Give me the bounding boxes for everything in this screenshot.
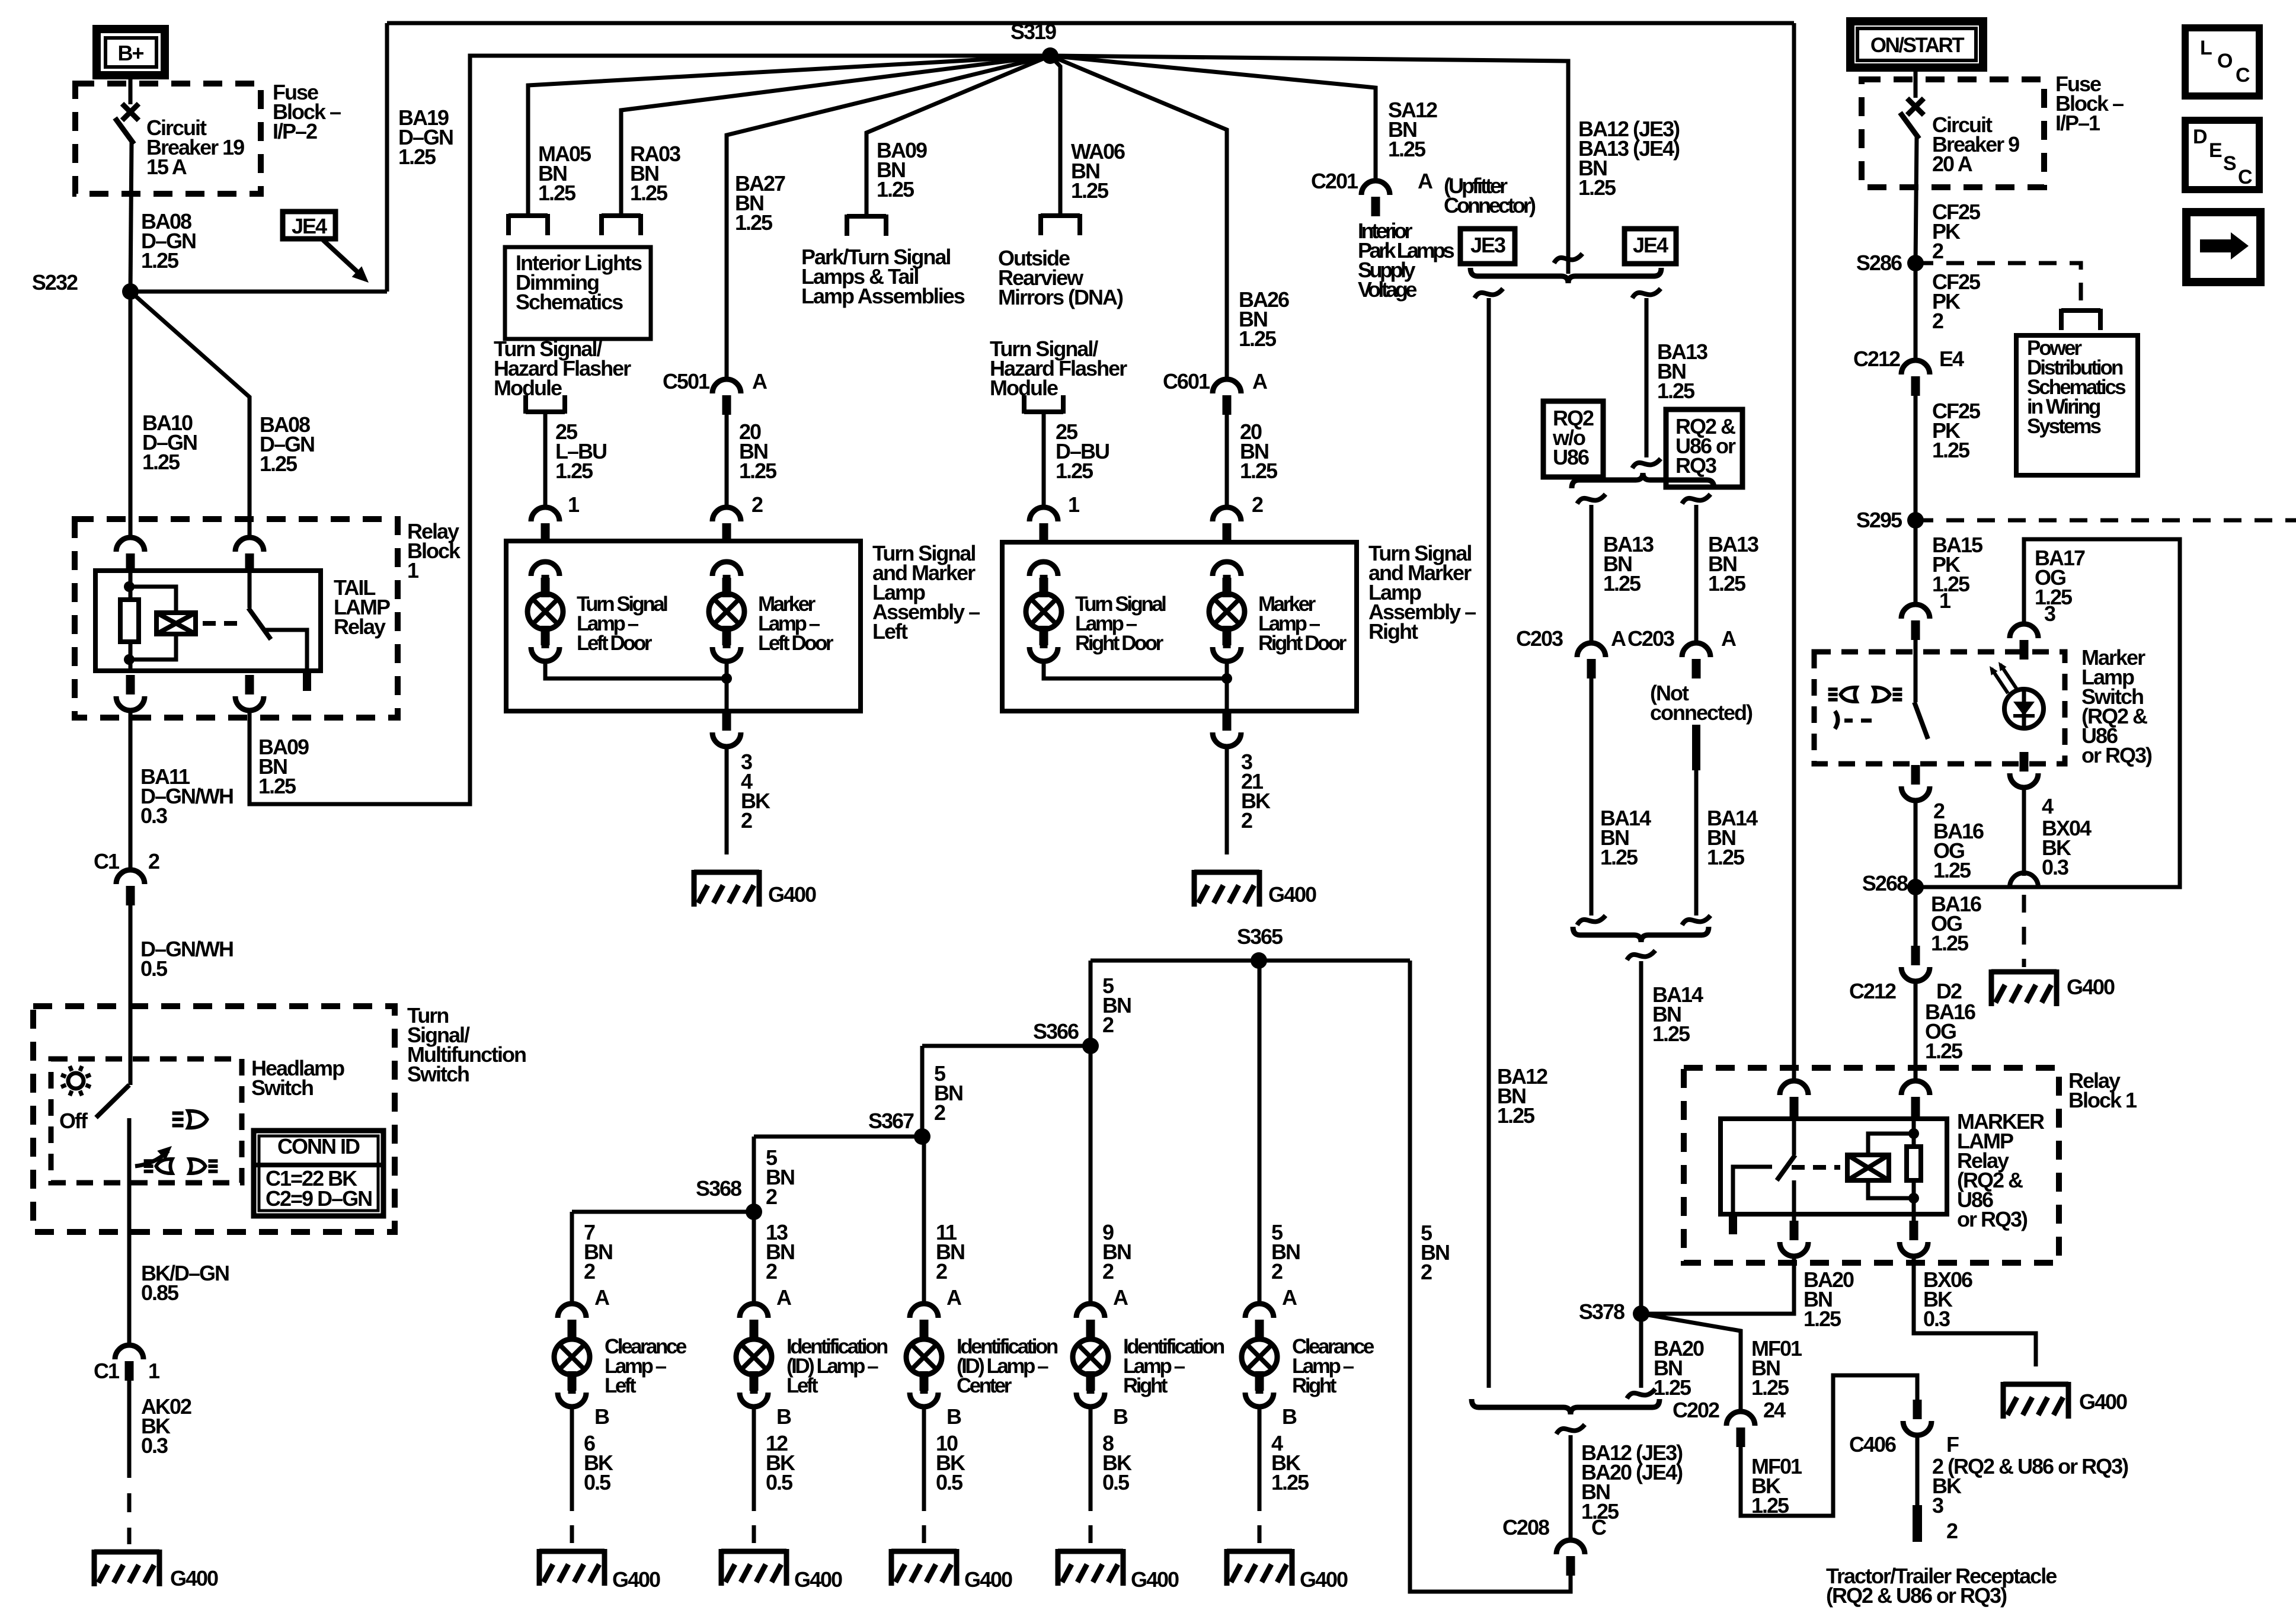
option box RQ2 wo U86 [1543,401,1603,477]
module bracket left [526,395,565,414]
connector LED pin3 [2010,624,2038,660]
resistor in tail lamp relay [120,600,139,642]
relay block 1 dashed box left [75,519,398,718]
label 2 RQ2 U86 or RQ3 BK 3 [1932,1454,2128,1518]
svg-text:C1: C1 [94,1359,120,1383]
svg-text:24: 24 [1763,1398,1786,1422]
connector C203 right [1627,626,1737,678]
svg-text:O: O [2217,50,2233,72]
wire ground identification lamp center [922,1407,926,1544]
svg-text:G400: G400 [768,882,816,907]
label Relay Block 1 left [407,519,461,582]
svg-text:S367: S367 [868,1109,914,1133]
nav box DESC [2185,120,2259,190]
ground G400 assembly right [1194,870,1316,907]
marker switch detent dashes [1835,711,1872,729]
label B col1 [776,1404,791,1429]
ground G400 headlamp [94,1550,218,1590]
relay coil bottom branch [129,634,176,660]
relay block 1 dashed box right [1684,1068,2059,1263]
module bracket right [1024,395,1063,414]
label identification lamp right [1123,1335,1224,1397]
label Tractor Trailer Receptacle [1826,1564,2057,1608]
turn signal lamp left door [527,575,563,648]
headlamp switch arm [96,1085,129,1118]
clip BA13 [1632,459,1661,468]
wire S286 to C212 [1914,263,1918,360]
wire S365 to S366 [1089,961,1093,1046]
svg-text:JE3: JE3 [1470,233,1505,257]
label BK/D-GN 0.85 [141,1261,229,1305]
svg-text:A: A [776,1285,792,1310]
label assembly right [1368,541,1476,644]
label Fuse Block I/P-1 [2055,72,2124,135]
clearance lamp left [554,1320,590,1394]
label Headlamp Switch [251,1056,344,1100]
splice S232 [32,270,139,300]
relay coil to switch dashed link [203,621,245,626]
label RA03 BN 1.25 [630,142,680,205]
clip C203 left branch [1577,494,1606,504]
label 5 BN 2 d [1421,1221,1449,1284]
connector C203 left [1516,626,1626,678]
relay switch arm [248,571,271,639]
label BA08 D-GN 1.25 left [141,209,196,273]
svg-text:1: 1 [1939,588,1951,613]
label Turn Signal Hazard Flasher Module right [990,337,1127,400]
connector TS lamp right [1029,562,1058,597]
svg-text:A: A [946,1285,962,1310]
label 5 BN 2 b [934,1061,962,1125]
connector A clearance lamp left [558,1304,586,1339]
connector marker lamp left [712,562,741,597]
label BA16 OG 1.25 b [1931,892,1981,955]
wire ON/START to breaker [1914,68,1918,98]
svg-text:1: 1 [148,1359,160,1383]
identification lamp left [736,1320,772,1394]
label Park/Turn Signal Lamps Tail [801,245,965,308]
wire S367 horizontal [754,1135,922,1139]
headlamp park lamp icon [172,1111,207,1128]
label 10 BK 0.5 col2 [936,1431,965,1494]
label Turn Signal Lamp Right Door [1075,593,1166,655]
splice S268 [1862,871,1924,895]
svg-text:S319: S319 [1011,20,1056,44]
connector assembly right pin3 [1213,678,1241,747]
svg-text:G400: G400 [612,1567,660,1592]
splice S365 [1237,924,1283,969]
clip BA14 left [1577,916,1606,925]
wire C406 to receptacle [1916,1435,1920,1505]
brace JE3 JE4 bus [1470,268,1661,283]
power feed box B+ [97,29,165,75]
svg-text:4: 4 [2042,794,2054,818]
connector marker relay pin B [1901,1081,1930,1116]
circuit breaker 9 [1900,98,1924,263]
clearance lamp right [1242,1320,1277,1394]
connector marker lamp right [1213,562,1241,597]
lamp left internal ground wire [531,626,741,711]
fan wire to SA12 [1050,56,1376,181]
marker relay coil wires [1868,1128,1919,1204]
connector B identification lamp center [910,1371,938,1407]
clip JE3 branch [1475,289,1503,298]
svg-text:G400: G400 [1131,1567,1179,1592]
interior lights dimming schematics box [505,247,651,339]
label identification lamp left [786,1335,888,1397]
label 2 right pin [1252,492,1263,517]
wire BX04 to ground [2010,788,2038,967]
ground G400 assembly left [694,870,816,907]
wire BA16 D2 to relay [1914,981,1918,1081]
wire BA19 right riser [1792,23,1796,1083]
svg-text:C1=22 BKC2=9 D–GN: C1=22 BKC2=9 D–GN [266,1166,372,1211]
svg-text:2: 2 [1252,492,1263,517]
wire D-GN/WH to headlamp switch [129,905,133,1085]
label TAIL LAMP Relay [334,575,390,639]
marker switch LED [1990,662,2044,728]
svg-text:Off: Off [59,1109,88,1133]
svg-text:A: A [752,369,768,393]
svg-text:S: S [2223,152,2236,175]
svg-text:1: 1 [568,492,580,517]
svg-text:E4: E4 [1939,347,1964,371]
connector C601 [1163,369,1268,415]
splice S295 [1856,508,1924,532]
pin bracket MA05 [509,214,548,235]
label BX06 BK 0.3 [1923,1267,1972,1331]
wire BA16 to S268 [1914,801,1918,887]
marker switch output [1901,765,1930,801]
label 3 21 BK 2 right [1241,750,1271,833]
connector assembly left pin3 [712,678,741,747]
headlamp switch dashed box [51,1059,242,1183]
dashed branch S295 [1916,518,2296,523]
brace RQ2 options [1572,473,1714,488]
svg-text:A: A [594,1285,610,1310]
label B col2 [946,1404,961,1429]
wire module to lamp R [1042,414,1046,507]
label assembly left [872,541,980,644]
connector C201 [1311,169,1433,216]
wire to ground left assembly [725,747,729,866]
svg-text:G400: G400 [2067,975,2115,999]
fan wire to BA09 feed [866,56,1050,216]
wire BA26 to lamp R [1225,415,1229,507]
marker lamp switch dashed box [1814,652,2065,764]
wire BA13 drop [1645,298,1649,457]
pin bracket WA06 [1041,214,1080,235]
label CF25 PK 2 b [1932,270,1981,333]
connector A clearance lamp right [1245,1304,1274,1339]
label clearance lamp right [1292,1335,1374,1397]
ground G400 clearance lamp right [1227,1549,1348,1592]
splice S319 [1011,20,1059,64]
splice S368 [696,1176,762,1220]
label D-GN/WH 0.5 [140,937,233,981]
svg-text:S366: S366 [1033,1019,1079,1044]
headlamp off icon [59,1066,91,1133]
svg-text:G400: G400 [2079,1390,2127,1414]
fan wire to BA27 [727,56,1050,379]
label Turn Signal Hazard Flasher Module left [494,337,631,400]
label 5 BN 2 col4 [1271,1220,1300,1283]
svg-text:A: A [1721,626,1737,651]
connector B clearance lamp right [1245,1371,1274,1407]
label MARKER LAMP Relay [1957,1109,2045,1231]
marker switch lamp icons [1828,687,1902,702]
label Upfitter Connector [1444,174,1536,217]
label BA17 OG 1.25 3 [2035,546,2085,626]
svg-text:A: A [1282,1285,1297,1310]
power distribution box [2016,335,2138,475]
label Turn Signal Multifunction Switch [407,1003,526,1086]
svg-text:C202: C202 [1673,1398,1719,1422]
label BA12 JE3 BA20 JE4 BN 1.25 [1581,1441,1683,1523]
label 5 BN 2 a [1102,974,1131,1037]
fan wire to RA03 [621,56,1050,216]
label BA20 BN 1.25 relay [1803,1267,1854,1331]
label BA13 BN 1.25 top [1657,340,1707,403]
turn signal lamp right door [1026,575,1061,648]
svg-text:B: B [776,1404,791,1429]
label MA05 BN 1.25 [538,142,591,205]
ground G400 identification lamp left [721,1549,842,1592]
svg-text:C212: C212 [1849,979,1896,1003]
pin bracket BA09 feed [847,215,886,236]
wire ground identification lamp left [752,1407,756,1544]
splice S286 [1856,251,1924,275]
connector into relay pin2 [235,537,264,573]
identification lamp right [1073,1320,1108,1394]
connector A identification lamp center [910,1304,938,1339]
circuit breaker 19 [115,104,139,292]
wire feed identification lamp right [1089,1046,1093,1304]
wire feed identification lamp left [752,1212,756,1304]
wire S232 to BA19 riser [130,23,387,292]
brace BA14 join [1573,927,1709,942]
label 5 BN 2 c [766,1145,794,1209]
label A col0 [594,1285,610,1310]
svg-text:B: B [946,1404,961,1429]
marker relay coil dash link [1792,1165,1840,1170]
svg-text:B: B [1113,1404,1128,1429]
reference box JE4 mid [1625,229,1676,264]
svg-text:E: E [2209,139,2222,162]
wire feed clearance lamp left [570,1212,574,1304]
label 4 BK 1.25 col4 [1271,1431,1309,1494]
wire BA12 long drop [1487,298,1491,1388]
label AK02 BK 0.3 [141,1394,191,1458]
label 11 BN 2 col2 [936,1220,964,1283]
fan wire to JE drop [1050,56,1568,274]
clip C202 center [1556,1425,1585,1434]
pin bracket power dist [2061,309,2100,330]
dashed branch S286 to power dist [1916,263,2081,308]
label BA12 BN 1.25 [1497,1064,1547,1128]
ground G400 clearance lamp left [539,1549,660,1592]
label 25 L-BU 1.25 [555,420,606,483]
marker relay coil [1847,1155,1889,1180]
label B col4 [1282,1404,1297,1429]
svg-text:B+: B+ [117,41,143,65]
connector out of relay pin3 [116,675,145,710]
svg-text:S286: S286 [1856,251,1902,275]
identification lamp center [906,1320,942,1394]
fan wire to BA26 [1050,56,1227,379]
wire BX06 [1914,1256,2036,1381]
marker relay dead stub [1729,1214,1737,1234]
marker lamp left door [709,575,744,648]
wire BA13 to C203 right [1694,505,1699,643]
svg-text:C: C [1591,1515,1607,1539]
svg-text:C601: C601 [1163,369,1210,393]
label BA12 JE3 BA13 JE4 [1578,117,1680,200]
svg-text:G400: G400 [1300,1567,1348,1592]
fan wire to MA05 [528,56,1050,216]
dead end tractor receptacle [1913,1505,1958,1543]
svg-text:C: C [2238,166,2252,188]
label WA06 BN 1.25 [1071,139,1125,203]
wire MF01 to C406 [1741,1375,1917,1516]
label 4 BX04 BK 0.3 [2042,794,2092,879]
nav box arrow [2186,212,2260,282]
wire BA14 from C203 left [1590,678,1594,916]
lamp right internal ground wire [1029,626,1241,711]
label BA11 D-GN/WH 0.3 [140,764,233,828]
connector A identification lamp right [1076,1304,1105,1339]
wire S368 horizontal [572,1210,754,1214]
marker relay fixed contact [1733,1167,1772,1214]
wire BA12 BA13 drop clip [1554,254,1582,263]
svg-text:B: B [594,1404,609,1429]
clip C203 right branch [1682,494,1710,504]
clip BA20 down [1627,1389,1655,1398]
label BA26 BN 1.25 [1239,287,1289,351]
connector B clearance lamp left [558,1371,586,1407]
label 7 BN 2 col0 [584,1220,612,1283]
wire AK02 to ground [127,1381,132,1544]
label Marker Lamp Switch [2081,645,2152,767]
wire MF01 S378 diagonal [1641,1314,1741,1411]
marker lamp relay box [1721,1119,1947,1214]
svg-text:D: D [2193,126,2207,148]
svg-text:F: F [1946,1432,1959,1457]
ground G400 identification lamp center [891,1549,1012,1592]
wire BA13 to C203 left [1590,505,1594,643]
label clearance lamp left [605,1335,687,1397]
wire BA20 S378 to relay [1641,1256,1794,1314]
pin bracket RA03 [602,214,641,235]
turn signal multifunction switch dashed box [33,1006,395,1232]
label 13 BN 2 col1 [766,1220,794,1283]
wire BA10 S232 to relay [129,292,133,537]
label 12 BK 0.5 col1 [766,1431,795,1494]
svg-text:MarkerLampSwitch(RQ2 &U86or RQ: MarkerLampSwitch(RQ2 &U86or RQ3) [2081,645,2152,767]
label 20 BN 1.25 left [739,420,777,483]
turn signal and marker lamp assembly right box [1002,542,1357,711]
inline connector C202 bracket [1472,1398,1719,1422]
label BA13 BN 1.25 right [1708,532,1758,596]
label BA14 BN 1.25 out [1652,982,1703,1046]
marker relay resistor [1907,1119,1921,1214]
splice S378 [1579,1299,1649,1324]
connector lamp assembly L pin1 [531,507,559,543]
svg-text:C201: C201 [1311,169,1358,193]
splice S367 [868,1109,930,1145]
svg-text:S268: S268 [1862,871,1908,895]
label 8 BK 0.5 col3 [1102,1431,1132,1494]
label 2 BA16 OG 1.25 [1933,799,1984,882]
svg-text:G400: G400 [794,1567,842,1592]
connector C212 E4 [1853,347,1964,396]
wire BA17 loop [1916,539,2180,887]
label A col3 [1113,1285,1128,1310]
power feed box ON/START [1850,21,1983,68]
label Turn Signal Lamp Left Door [577,593,667,655]
label Marker Lamp Right Door [1258,593,1347,655]
svg-text:CONN ID: CONN ID [277,1134,360,1158]
label CF25 PK 2 a [1932,200,1981,263]
label Marker Lamp Left Door [758,593,834,655]
label Interior Lights Dimming Schematics [516,251,642,314]
wire ground clearance lamp left [570,1407,574,1544]
turn signal and marker lamp assembly left box [506,541,861,711]
relay unused pin stub [303,671,311,691]
connector LED pin4 [2010,752,2038,788]
label BA20 BN 1.25 down [1654,1336,1704,1400]
svg-text:A: A [1418,169,1433,193]
splice S366 [1033,1019,1099,1054]
relay switch contact [266,630,307,671]
connector into relay pin1 [116,537,145,573]
label BA27 BN 1.25 [735,171,785,235]
relay coil branch [129,587,176,613]
connector marker relay pin A [1780,1081,1808,1116]
marker relay BX06 pin [1900,1214,1928,1256]
label BA09 BN 1.25 [258,735,309,798]
relay resistor bottom lead [124,642,135,671]
wire ground identification lamp right [1089,1407,1093,1544]
wire module to lamp L [543,414,548,507]
clip BA14 right [1682,916,1710,925]
label B col3 [1113,1404,1128,1429]
connector lamp assembly R pin1 [1029,507,1058,543]
label A col2 [946,1285,962,1310]
connector lamp assembly R pin2 [1213,507,1241,543]
label 1 right pin [1068,492,1080,517]
svg-text:S368: S368 [696,1176,741,1201]
label MF01 BN 1.25 [1751,1336,1802,1400]
label BA14 BN 1.25 left [1600,806,1651,869]
wire BA19 top bus [387,21,1794,25]
svg-text:JE4: JE4 [292,214,327,238]
svg-text:L: L [2200,37,2212,59]
svg-text:C212: C212 [1853,347,1900,371]
svg-text:1: 1 [1068,492,1080,517]
svg-text:JE4: JE4 [1633,233,1668,257]
svg-text:S232: S232 [32,270,78,295]
label 1 left pin [568,492,580,517]
wire S366 horizontal [922,1044,1091,1048]
label BA09 BN 1.25 feed [877,138,927,201]
tail lamp relay box [95,571,321,671]
connector C212 D2 [1849,946,1962,1003]
svg-text:G400: G400 [1268,882,1316,907]
wire BA16 S268 down [1914,887,1918,948]
label BA13 BN 1.25 left [1603,532,1654,596]
label 3 4 BK 2 left [741,750,770,833]
